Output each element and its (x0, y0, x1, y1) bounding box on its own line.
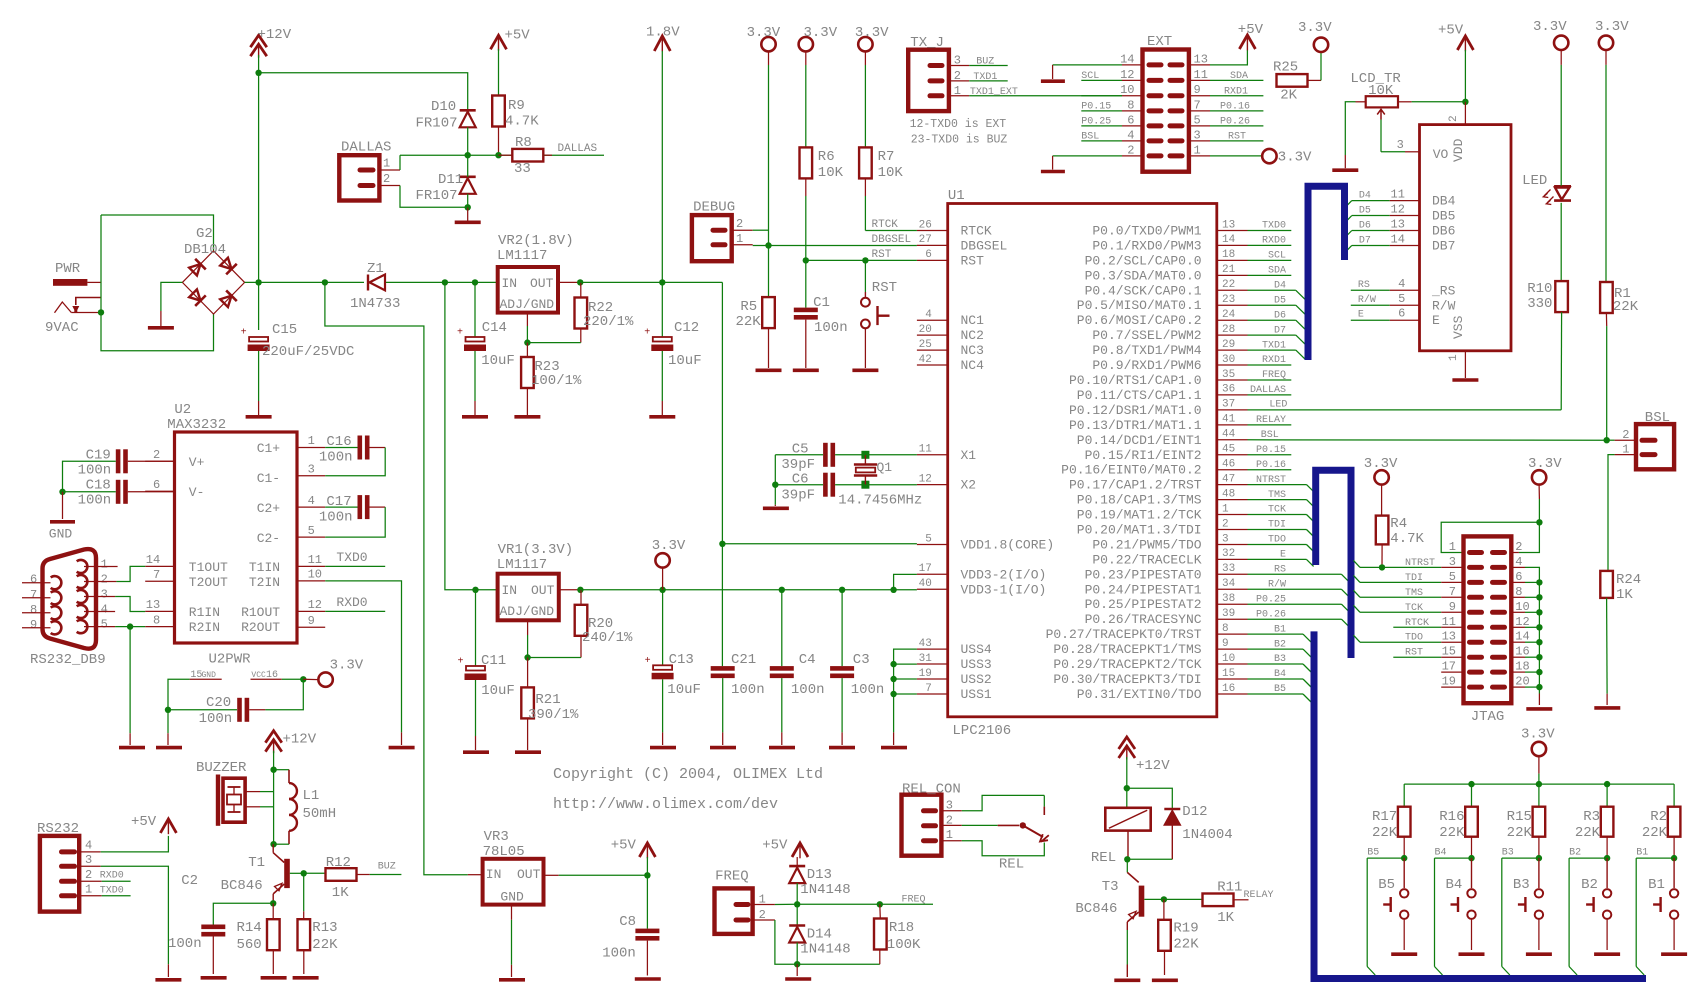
junction C12/1.8V (659, 279, 665, 285)
pin U1 FREQ (35) stub (1217, 379, 1248, 381)
ground (JTAG) (1526, 707, 1552, 711)
wire FREQ1 (753, 904, 775, 906)
ground (RSTBTN) (852, 368, 878, 372)
supply 3.3V (R25) (1314, 38, 1328, 52)
svg-text:RST: RST (1228, 132, 1246, 143)
corner rail R16 (1471, 784, 1473, 807)
svg-text:6: 6 (30, 573, 37, 587)
svg-text:P0.25: P0.25 (1256, 594, 1286, 605)
svg-text:10uF: 10uF (481, 683, 515, 699)
power flag 1.8V (654, 36, 670, 51)
wire VDD3-2 pin17 (894, 574, 917, 589)
svg-text:T3: T3 (1102, 879, 1119, 895)
svg-text:C2-: C2- (257, 531, 280, 546)
pin U2 #12 (297, 610, 325, 612)
svg-text:D7: D7 (1274, 325, 1286, 336)
svg-text:B1: B1 (1636, 848, 1648, 859)
wire C19 left (63, 461, 116, 492)
svg-text:B4: B4 (1274, 669, 1286, 680)
pin U1 USS2 (19) (917, 678, 948, 680)
wire R13 gnd (303, 950, 305, 974)
svg-text:X2: X2 (961, 478, 977, 493)
svg-text:5: 5 (308, 524, 315, 538)
svg-text:REL_CON: REL_CON (902, 781, 961, 797)
svg-text:BC846: BC846 (221, 878, 263, 894)
wire B3 drop to bus (1501, 858, 1503, 966)
junction L1 bottom (270, 841, 276, 847)
svg-text:P0.7/SSEL/PWM2: P0.7/SSEL/PWM2 (1092, 328, 1201, 343)
svg-text:R3: R3 (1583, 809, 1600, 825)
svg-text:RST: RST (872, 249, 892, 261)
wire C19 to V+ (128, 460, 175, 462)
svg-text:+: + (241, 328, 247, 339)
connector DALLAS (339, 155, 379, 200)
pin U1 TXD1 (29) stub (1217, 349, 1248, 351)
wire 3.3V c2 stem (805, 51, 807, 65)
wire B3 gnd (1538, 919, 1540, 950)
pin U2 #1 (297, 447, 325, 449)
ground (C15) (246, 415, 272, 419)
pins JTAG 17/18 (1470, 670, 1482, 675)
junction C8 (644, 872, 650, 878)
wire RST btn gnd (864, 329, 866, 368)
svg-text:22K: 22K (1575, 825, 1601, 841)
svg-text:T1OUT: T1OUT (189, 560, 228, 575)
wire B2 drop to bus (1568, 858, 1570, 966)
pin U1 DBGSEL (27) (917, 244, 948, 246)
junction JTAG right y642.2 (1536, 639, 1542, 645)
wire DB9 5 to R2IN (84, 626, 115, 628)
svg-text:10K: 10K (1368, 83, 1394, 99)
svg-text:7: 7 (153, 568, 160, 582)
power flag +5V (top) (491, 35, 507, 49)
svg-text:P0.19/MAT1.2/TCK: P0.19/MAT1.2/TCK (1077, 508, 1202, 523)
capacitor C6 39pF (823, 473, 828, 497)
svg-text:2: 2 (1222, 518, 1229, 530)
pins EXT 6/5 (1149, 123, 1161, 128)
wire R18 top lead (879, 904, 882, 918)
svg-text:12-TXD0 is EXT: 12-TXD0 is EXT (910, 118, 1007, 131)
svg-text:P0.10/RTS1/CAP1.0: P0.10/RTS1/CAP1.0 (1069, 373, 1202, 388)
wire R17 to btn (1403, 837, 1405, 858)
svg-text:2: 2 (101, 573, 108, 587)
svg-text:REL: REL (1091, 850, 1116, 866)
svg-text:3: 3 (308, 463, 315, 477)
wire +12V to D10 column (259, 73, 468, 111)
svg-text:R13: R13 (312, 920, 337, 936)
svg-text:P0.17/CAP1.2/TRST: P0.17/CAP1.2/TRST (1069, 478, 1202, 493)
ground (B2) (1594, 952, 1620, 956)
wire C11 to gnd (475, 680, 477, 736)
capacitor C18 100n (116, 480, 121, 504)
svg-text:P0.20/MAT1.3/TDI: P0.20/MAT1.3/TDI (1077, 523, 1202, 538)
crystal Q1 14.7456MHz (854, 463, 877, 466)
wire X2 row (865, 484, 917, 486)
svg-text:+: + (645, 656, 651, 667)
junction JTAG right y657.2 (1536, 654, 1542, 660)
junction JTAG right y672.1 (1536, 669, 1542, 675)
wire buttons 3.3V stem (1538, 756, 1540, 773)
wire DB9 5 to gnd (129, 627, 131, 734)
wire emitter to R14 (272, 903, 274, 919)
wire BSL row long (1248, 439, 1607, 441)
wire BSL pin2 (1607, 439, 1615, 441)
button B5 (1403, 858, 1405, 888)
svg-text:5: 5 (925, 533, 932, 545)
svg-text:VDD3-1(I/O): VDD3-1(I/O) (961, 582, 1047, 597)
svg-text:_RS: _RS (1431, 283, 1456, 298)
svg-text:VDD: VDD (1451, 138, 1466, 162)
ground (R5) (756, 368, 782, 372)
wire JTAG TDI (1360, 581, 1441, 583)
junction VR1 adj (524, 654, 530, 660)
svg-text:C14: C14 (482, 320, 507, 336)
svg-text:P0.13/DTR1/MAT1.1: P0.13/DTR1/MAT1.1 (1069, 418, 1202, 433)
supply 3.3V (debug1) (761, 37, 775, 51)
resistor R2 22K (1668, 807, 1681, 837)
wire VR3 in (468, 874, 483, 876)
wire JTAG right pin y642.2 (1511, 641, 1525, 643)
wire D14 down (796, 943, 798, 965)
wire C5 left (775, 454, 823, 456)
wire C21 to gnd (722, 678, 724, 732)
pin U1 TCK (1) stub (1217, 514, 1248, 516)
pin DB9 9 arc (51, 621, 62, 634)
svg-text:R4: R4 (1390, 516, 1407, 532)
wire U2PWR gnd side (168, 679, 190, 710)
junction T1 base node (301, 870, 307, 876)
pin REL_CON 3 (924, 808, 936, 813)
junction RST-C1 (803, 257, 809, 263)
svg-text:14: 14 (146, 553, 160, 567)
pin U1 B4 (15) stub (1217, 678, 1248, 680)
svg-text:6: 6 (153, 478, 160, 492)
wire R14 gnd (272, 950, 274, 974)
wire EXT2 gnd (1122, 155, 1143, 157)
svg-text:22K: 22K (1439, 825, 1465, 841)
wire EXT3 RST (1189, 140, 1210, 142)
svg-text:TX_J: TX_J (910, 35, 944, 51)
svg-text:+12V: +12V (258, 27, 292, 43)
svg-text:78L05: 78L05 (483, 844, 525, 860)
svg-text:26: 26 (919, 219, 932, 231)
svg-text:3: 3 (85, 853, 92, 867)
svg-text:48: 48 (1222, 488, 1235, 500)
svg-text:46: 46 (1222, 459, 1235, 471)
wire net B5 to bus3 (1248, 693, 1304, 695)
svg-text:100K: 100K (887, 937, 921, 953)
svg-text:P0.9/RXD1/PWM6: P0.9/RXD1/PWM6 (1092, 358, 1201, 373)
junction VDD1.8 tap (719, 541, 725, 547)
wire C17 left (325, 506, 357, 508)
wire net DALLAS (1248, 394, 1292, 396)
wire T2IN down (325, 581, 401, 733)
wire LED column top (1560, 50, 1562, 65)
svg-text:R5: R5 (740, 299, 757, 315)
pin U1 NTRST (47) stub (1217, 484, 1248, 486)
svg-text:R8: R8 (515, 135, 532, 151)
svg-text:C2+: C2+ (257, 501, 281, 516)
svg-text:1: 1 (85, 882, 92, 896)
ground (LCD_TR) (1332, 168, 1358, 172)
svg-text:30: 30 (1222, 354, 1235, 366)
pins EXT 10/9 (1149, 93, 1161, 98)
wire JTAG TCK (1360, 611, 1441, 613)
junction D13/D14 (794, 901, 800, 907)
svg-text:2: 2 (1448, 115, 1460, 122)
svg-text:+5V: +5V (611, 838, 637, 854)
ground (B3) (1526, 952, 1552, 956)
svg-text:100n: 100n (851, 682, 885, 698)
wire D13 to node (796, 883, 798, 904)
pins JTAG 19/20 (1470, 685, 1482, 690)
svg-text:LM1117: LM1117 (497, 557, 547, 573)
bridge G2 DB104 outline (182, 251, 244, 314)
svg-text:14: 14 (1222, 234, 1236, 246)
wire JTAG right pin y657.2 (1511, 656, 1525, 658)
power flag +5V (EXT) (1239, 35, 1255, 49)
svg-text:P0.16/EINT0/MAT0.2: P0.16/EINT0/MAT0.2 (1061, 463, 1201, 478)
pin U2 V+ (145, 460, 174, 462)
svg-text:B2: B2 (1569, 848, 1581, 859)
pin U1 USS1 (7) (917, 693, 948, 695)
svg-text:100n: 100n (319, 450, 353, 466)
svg-text:RST: RST (872, 280, 897, 296)
power flag +12V (buzzer) (265, 731, 281, 743)
wire R11 right RELAY (1234, 899, 1249, 901)
svg-text:C11: C11 (481, 653, 506, 669)
pin RS232 2 (62, 879, 75, 884)
junction rail R3 (1604, 781, 1610, 787)
svg-text:1N4733: 1N4733 (350, 296, 400, 312)
wire R3 to btn (1606, 837, 1608, 858)
corner rail R3 (1606, 784, 1608, 807)
svg-text:B1: B1 (1274, 624, 1286, 635)
ground (R13) (293, 976, 319, 980)
wire B4 label stub (1435, 857, 1472, 859)
wire 3.3V rail (580, 589, 917, 591)
svg-text:23: 23 (1222, 294, 1235, 306)
svg-text:24: 24 (1222, 309, 1236, 321)
junction RST-SW (862, 257, 868, 263)
svg-text:16: 16 (266, 670, 278, 681)
svg-text:USS3: USS3 (961, 657, 992, 672)
svg-text:R25: R25 (1273, 60, 1298, 76)
supply 3.3V (buttons) (1532, 742, 1546, 756)
pin U1 TMS (48) stub (1217, 499, 1248, 501)
pin DB9 3 arc (77, 590, 88, 603)
resistor R23 100/1% (521, 357, 534, 388)
svg-text:DBGSEL: DBGSEL (961, 238, 1008, 253)
svg-text:+12V: +12V (1136, 758, 1170, 774)
svg-text:OUT: OUT (517, 867, 541, 882)
svg-text:42: 42 (919, 354, 932, 366)
wire net B1 to bus3 (1248, 633, 1304, 635)
wire C16 loop (370, 447, 386, 449)
connector JTAG (1464, 536, 1512, 703)
svg-text:1: 1 (101, 558, 108, 572)
wire VR3 gnd (511, 905, 513, 920)
junction JTAG right y612.3 (1536, 609, 1542, 615)
pin U1 SDA (21) stub (1217, 274, 1248, 276)
wire R1 down (1605, 313, 1607, 326)
svg-text:DB5: DB5 (1432, 209, 1455, 224)
svg-text:Q1: Q1 (877, 460, 893, 475)
svg-text:17: 17 (919, 563, 932, 575)
svg-text:100/1%: 100/1% (531, 373, 582, 389)
wire net D5 to bus (1248, 304, 1296, 306)
ground (D11) (455, 221, 481, 225)
svg-text:R19: R19 (1173, 921, 1198, 937)
pin U1 USS4 (43) (917, 648, 948, 650)
capacitor C14 10uF (466, 337, 485, 342)
bus JTAG part1 (1316, 470, 1351, 658)
svg-text:NC4: NC4 (961, 358, 985, 373)
svg-text:FREQ: FREQ (1262, 370, 1286, 381)
svg-text:100n: 100n (168, 936, 202, 952)
svg-text:B3: B3 (1502, 848, 1514, 859)
svg-text:SDA: SDA (1230, 71, 1248, 82)
svg-text:+12V: +12V (283, 732, 317, 748)
wire JTAG 19 stub (1441, 686, 1463, 688)
svg-text:R2OUT: R2OUT (241, 620, 280, 635)
svg-text:TXD0: TXD0 (1262, 221, 1286, 232)
svg-text:R1OUT: R1OUT (241, 605, 280, 620)
ground (R14) (261, 976, 287, 980)
pin BSL 2 (1642, 438, 1655, 443)
svg-text:3.3V: 3.3V (804, 25, 838, 41)
svg-text:LED: LED (1269, 400, 1287, 411)
ground (R21) (515, 750, 541, 754)
svg-text:USS4: USS4 (961, 642, 992, 657)
wire C18 left (63, 491, 116, 493)
svg-text:D7: D7 (1359, 235, 1371, 246)
svg-text:35: 35 (1222, 369, 1235, 381)
svg-text:VR2(1.8V): VR2(1.8V) (498, 233, 574, 249)
wire R19 top (1163, 899, 1165, 919)
junction BSL (1604, 437, 1610, 443)
connector FREQ (715, 888, 753, 934)
wire RS232 1 TXD0 (79, 895, 102, 897)
supply 3.3V (R4) (1374, 470, 1388, 484)
wire EXT12 SCL (1122, 79, 1143, 81)
wire net RXD0 (1248, 244, 1292, 246)
svg-text:22K: 22K (736, 314, 762, 330)
pin U2 T2OUT (145, 580, 174, 582)
pin DB9 6 arc (51, 576, 62, 589)
svg-text:+5V: +5V (505, 28, 531, 44)
corner rail R2 (1673, 784, 1675, 807)
wire net TMS to bus2 (1248, 499, 1307, 501)
wire EXT11 SDA (1189, 79, 1210, 81)
ground (RS232-3) (155, 978, 181, 982)
pins JTAG 15/16 (1470, 655, 1482, 660)
pin U1 VDD3-1(I/O) (40) (917, 588, 948, 590)
wire +12V relay stem (1126, 757, 1128, 808)
junction U2 VCC (300, 676, 306, 682)
wire net D6 to bus (1248, 319, 1296, 321)
wire C8 gnd (646, 941, 648, 976)
svg-text:G2: G2 (196, 226, 213, 242)
wire node to D14 (796, 904, 798, 925)
wire R1 top (1605, 50, 1607, 65)
svg-text:2: 2 (736, 217, 743, 231)
pins JTAG 7/8 (1470, 595, 1482, 600)
supply 3.3V (JTAG) (1532, 470, 1546, 484)
pin U2 #3 (297, 475, 325, 477)
wire R6 down (805, 178, 807, 196)
wire net B4 to bus3 (1248, 678, 1304, 680)
svg-text:B2: B2 (1274, 639, 1286, 650)
pins JTAG 13/14 (1470, 640, 1482, 645)
svg-text:B5: B5 (1274, 684, 1286, 695)
pin U1 DALLAS (36) stub (1217, 394, 1248, 396)
wire JTAG RST (1393, 656, 1441, 658)
ground (R23) (514, 415, 540, 419)
svg-text:10: 10 (1222, 653, 1235, 665)
svg-text:P0.28/TRACEPKT1/TMS: P0.28/TRACEPKT1/TMS (1053, 642, 1201, 657)
svg-text:40: 40 (919, 578, 932, 590)
svg-text:1N4148: 1N4148 (800, 942, 850, 958)
svg-text:C3: C3 (853, 652, 870, 668)
svg-text:IN: IN (502, 276, 518, 291)
wire 3.3V c3 stem (864, 51, 866, 65)
svg-text:3.3V: 3.3V (1364, 456, 1398, 472)
svg-text:B4: B4 (1435, 848, 1447, 859)
svg-text:USS2: USS2 (961, 672, 992, 687)
wire net TDO to bus2 (1248, 544, 1307, 546)
wire B2 label stub (1569, 857, 1607, 859)
pin U2 #4 (297, 506, 325, 508)
ground (DB9-5) (119, 746, 145, 750)
pin U1 VDD3-2(I/O) (17) (917, 573, 948, 575)
wire 12V to VR3 (long) (325, 282, 468, 874)
power flag +12V (relay) (1119, 737, 1135, 749)
junction VR3 feed (322, 279, 328, 285)
pin U1 B5 (16) stub (1217, 693, 1248, 695)
pin U2 #11 (297, 565, 325, 567)
svg-text:LED: LED (1522, 173, 1547, 189)
svg-text:LPC2106: LPC2106 (952, 723, 1011, 739)
ground flag GND (50, 520, 75, 524)
connector RS232_DB9 outline (43, 549, 97, 649)
wire JTAG 3.3V stem (1538, 485, 1540, 499)
wire REL_CON 1 (941, 840, 961, 842)
resistor R11 1K (1203, 894, 1234, 907)
wire LCD DB7 (1352, 244, 1390, 246)
svg-text:E: E (1432, 313, 1440, 328)
wire LCD R/W (1351, 304, 1390, 306)
pin DB9 4 arc (77, 605, 88, 618)
svg-text:FREQ: FREQ (902, 895, 926, 906)
wire C13 to gnd (662, 679, 664, 732)
svg-text:GND: GND (49, 527, 73, 542)
wire BSL pin1 (1615, 454, 1636, 456)
junction C20 left (165, 707, 171, 713)
capacitor C1 100n (794, 308, 818, 313)
wire D12 bottom (1171, 825, 1173, 860)
wire DB9 3 to R1IN (84, 596, 115, 598)
junction R18 top (877, 901, 883, 907)
svg-text:6: 6 (1398, 307, 1405, 321)
pin U1 TDI (2) stub (1217, 529, 1248, 531)
junction rail R15 (1536, 781, 1542, 787)
wire +5V LCD stem (1464, 50, 1466, 102)
resistor R4 4.7K (1376, 516, 1389, 545)
wire +12V stem (258, 55, 260, 282)
svg-text:BC846: BC846 (1075, 901, 1117, 917)
svg-text:3: 3 (1222, 533, 1229, 545)
